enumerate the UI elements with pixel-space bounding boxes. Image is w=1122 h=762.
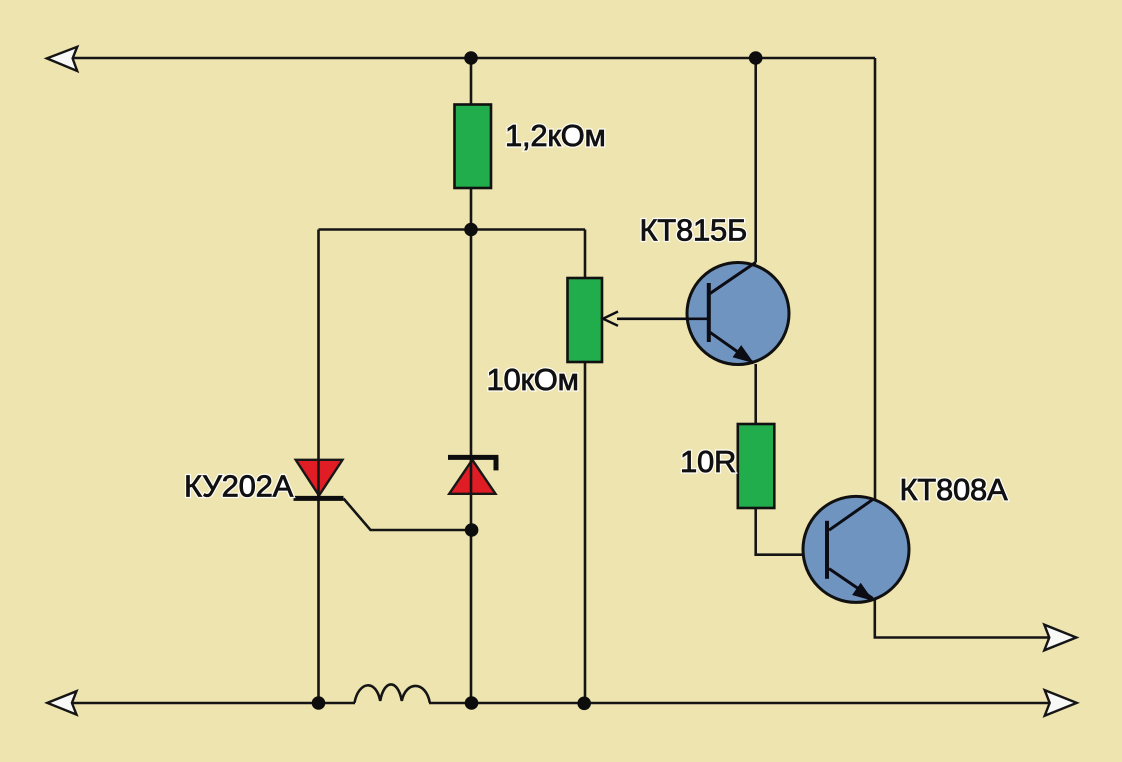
svg-text:1,2кОм: 1,2кОм (505, 118, 606, 153)
svg-text:10кОм: 10кОм (487, 362, 579, 397)
svg-text:10R: 10R (680, 444, 736, 479)
svg-text:КТ808А: КТ808А (900, 472, 1008, 507)
svg-text:КТ815Б: КТ815Б (640, 213, 748, 248)
svg-text:КУ202А: КУ202А (184, 468, 294, 503)
